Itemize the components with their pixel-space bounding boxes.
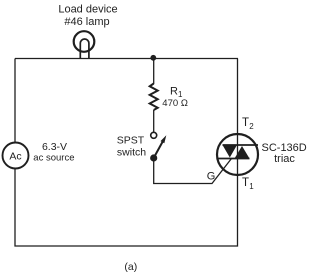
svg-text:470 Ω: 470 Ω: [162, 98, 188, 109]
svg-text:1: 1: [249, 182, 254, 191]
svg-text:G: G: [207, 170, 216, 182]
svg-text:SPST: SPST: [117, 135, 145, 147]
svg-text:2: 2: [249, 122, 254, 131]
svg-text:triac: triac: [274, 153, 295, 165]
svg-text:ac source: ac source: [33, 153, 74, 164]
svg-text:#46 lamp: #46 lamp: [64, 16, 109, 28]
svg-text:Ac: Ac: [9, 151, 21, 163]
svg-text:T: T: [242, 177, 249, 189]
svg-text:R: R: [170, 86, 178, 98]
svg-text:Load device: Load device: [58, 4, 117, 16]
svg-text:switch: switch: [117, 147, 146, 159]
svg-text:(a): (a): [124, 261, 137, 273]
svg-text:T: T: [242, 117, 249, 129]
svg-text:6.3-V: 6.3-V: [42, 141, 67, 153]
